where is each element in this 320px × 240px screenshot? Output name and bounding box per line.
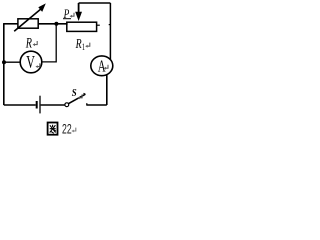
svg-text:A: A (98, 57, 106, 76)
potentiometer R1 body (67, 22, 97, 31)
label R (25, 35, 32, 51)
rheostat arrow (diagonal) (14, 9, 41, 31)
label S (72, 89, 77, 100)
label V (26, 54, 35, 73)
wire battery to bottom-left corner (4, 104, 36, 106)
wire right side down to ammeter (109, 3, 111, 60)
label P underlined (63, 8, 70, 22)
caption glyph TU (figure) box (48, 123, 58, 135)
return mark after V (35, 63, 39, 68)
return mark after A (104, 65, 108, 70)
svg-text:S: S (72, 89, 77, 100)
voltmeter V1 circle (20, 51, 42, 73)
battery negative plate (short thick) (36, 101, 38, 109)
return mark after R1 (85, 43, 90, 48)
switch S lever (69, 94, 86, 103)
ammeter A1 circle (91, 56, 113, 76)
switch pivot circle (65, 103, 69, 107)
right-wire nub (unconnected) (109, 24, 111, 26)
return mark after caption (71, 128, 75, 133)
svg-text:22: 22 (62, 121, 72, 137)
svg-text:R: R (25, 35, 32, 51)
wire junction to R1 pot (56, 24, 66, 25)
background (0, 0, 117, 139)
return mark after S (78, 94, 83, 99)
wiper arrow of R1 (78, 3, 80, 13)
label R1 (75, 35, 85, 52)
svg-text:P: P (63, 8, 70, 22)
wire bottom right (87, 104, 107, 106)
svg-text:R: R (75, 35, 82, 51)
wire voltmeter right up to junction (42, 24, 56, 62)
return mark after R (33, 41, 38, 46)
switch fixed contact tick (86, 103, 88, 105)
caption text 22 (62, 121, 72, 137)
node junction dot left (2, 60, 6, 64)
wire ammeter bottom down (106, 74, 108, 105)
return mark after P (70, 13, 74, 18)
svg-text:1: 1 (82, 42, 85, 52)
R1 right stub (unconnected) (97, 24, 100, 26)
label A (98, 57, 106, 76)
battery positive plate (tall) (39, 96, 41, 114)
wire left side vertical (3, 23, 5, 105)
wire switch to battery (41, 104, 65, 106)
svg-text:V: V (26, 54, 35, 73)
wire pot wiper top to right corner (79, 2, 111, 4)
wire top-left horizontal (4, 23, 18, 25)
wire left to voltmeter (4, 61, 20, 63)
resistor R1 (rheostat) body (18, 19, 38, 28)
wire rheostat to junction (38, 23, 56, 25)
node junction dot top (54, 22, 58, 26)
